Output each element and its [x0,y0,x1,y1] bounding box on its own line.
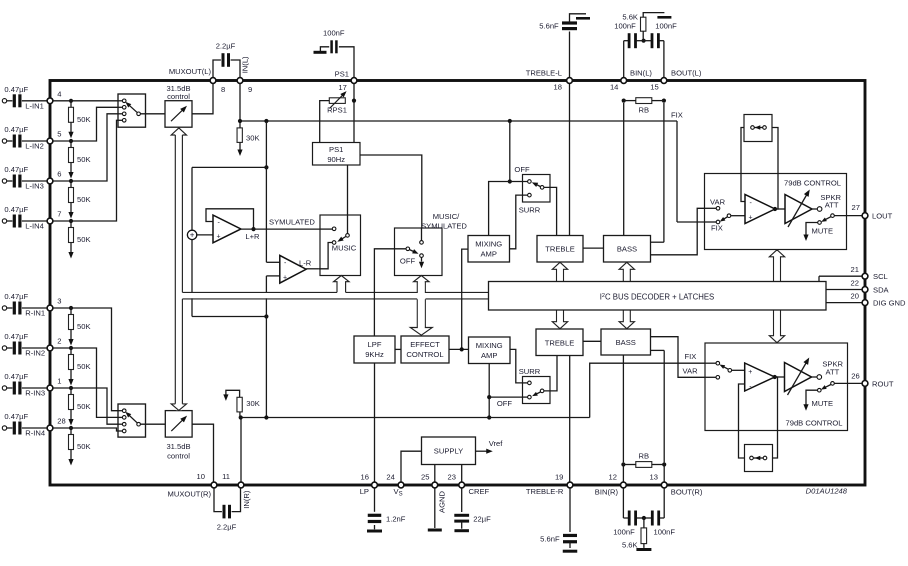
svg-text:CREF: CREF [469,487,490,496]
svg-text:5.6nF: 5.6nF [539,22,559,31]
svg-text:BIN(L): BIN(L) [630,69,652,78]
svg-text:IN(L): IN(L) [240,56,249,73]
svg-text:15: 15 [650,83,658,92]
svg-text:L-IN4: L-IN4 [25,222,44,231]
svg-text:RPS1: RPS1 [327,106,347,115]
svg-text:BASS: BASS [617,245,637,254]
svg-text:5.6K: 5.6K [622,13,638,22]
svg-text:FIX: FIX [671,111,683,120]
svg-text:2.2µF: 2.2µF [217,523,237,532]
svg-text:TREBLE-L: TREBLE-L [526,69,562,78]
svg-text:SUPPLY: SUPPLY [434,446,463,455]
svg-text:24: 24 [386,473,394,482]
svg-text:2: 2 [57,337,61,346]
svg-text:TREBLE: TREBLE [545,245,575,254]
svg-text:12: 12 [609,473,617,482]
svg-text:SYMULATED: SYMULATED [421,222,467,231]
svg-text:R-IN3: R-IN3 [25,389,45,398]
svg-text:0.47µF: 0.47µF [4,292,28,301]
svg-text:+: + [749,214,753,221]
svg-text:MUSIC/: MUSIC/ [433,212,460,221]
svg-text:L-IN3: L-IN3 [25,182,44,191]
svg-text:PS1: PS1 [329,145,343,154]
svg-text:+: + [283,274,287,281]
svg-text:Vref: Vref [489,439,504,448]
svg-text:MUTE: MUTE [812,227,834,236]
svg-text:SYMULATED: SYMULATED [269,218,315,227]
svg-text:PS1: PS1 [335,69,349,78]
svg-text:50K: 50K [77,442,91,451]
svg-text:TREBLE-R: TREBLE-R [526,487,564,496]
svg-text:11: 11 [222,472,230,481]
svg-text:MIXING: MIXING [475,240,502,249]
svg-text:L-R: L-R [299,258,312,267]
svg-text:SURR: SURR [519,206,541,215]
svg-text:90Hz: 90Hz [327,155,345,164]
svg-text:OFF: OFF [514,165,530,174]
svg-text:L-IN1: L-IN1 [25,101,44,110]
svg-text:5.6nF: 5.6nF [540,535,560,544]
svg-text:AGND: AGND [438,491,447,513]
svg-text:19: 19 [555,473,563,482]
svg-text:2.2µF: 2.2µF [216,42,236,51]
svg-text:AMP: AMP [481,351,497,360]
svg-text:50K: 50K [77,322,91,331]
svg-text:ATT: ATT [826,367,840,376]
svg-text:26: 26 [851,371,859,380]
svg-text:8: 8 [221,85,225,94]
svg-text:R-IN4: R-IN4 [25,429,45,438]
svg-text:18: 18 [554,83,562,92]
svg-text:I2C BUS DECODER + LATCHES: I2C BUS DECODER + LATCHES [600,292,715,301]
svg-text:control: control [167,452,190,461]
svg-text:+: + [748,369,752,376]
svg-text:MUXOUT(R): MUXOUT(R) [168,490,212,499]
svg-text:LOUT: LOUT [872,212,893,221]
svg-text:5: 5 [57,130,61,139]
svg-text:27: 27 [852,203,860,212]
svg-text:SURR: SURR [519,367,541,376]
svg-text:79dB CONTROL: 79dB CONTROL [786,419,843,428]
svg-text:RB: RB [639,106,650,115]
svg-text:22: 22 [851,278,859,287]
svg-text:0.47µF: 0.47µF [4,165,28,174]
svg-text:LP: LP [360,487,369,496]
svg-text:0.47µF: 0.47µF [4,125,28,134]
svg-text:RB: RB [639,452,650,461]
svg-text:L+R: L+R [245,232,260,241]
svg-text:23: 23 [448,473,456,482]
svg-text:0.47µF: 0.47µF [4,412,28,421]
svg-text:50K: 50K [77,195,91,204]
svg-text:1.2nF: 1.2nF [386,515,406,524]
svg-text:+: + [217,234,221,241]
svg-text:0.47µF: 0.47µF [4,372,28,381]
svg-text:ATT: ATT [825,201,839,210]
svg-text:9KHz: 9KHz [365,350,384,359]
svg-text:100nF: 100nF [613,527,635,536]
svg-text:MUSIC: MUSIC [332,244,357,253]
svg-text:MUTE: MUTE [812,399,834,408]
svg-text:4: 4 [57,90,61,99]
svg-text:SCL: SCL [873,272,888,281]
svg-text:MUXOUT(L): MUXOUT(L) [169,67,212,76]
svg-text:CONTROL: CONTROL [406,350,443,359]
svg-text:SDA: SDA [873,286,890,295]
svg-text:IN(R): IN(R) [242,490,251,509]
svg-text:LPF: LPF [368,340,382,349]
svg-text:FIX: FIX [711,223,723,232]
svg-text:3: 3 [57,297,61,306]
svg-text:+: + [190,231,195,240]
svg-text:17: 17 [338,83,346,92]
svg-text:TREBLE: TREBLE [545,339,575,348]
svg-text:MIXING: MIXING [476,341,503,350]
svg-text:28: 28 [57,417,65,426]
svg-text:5.6K: 5.6K [622,541,638,550]
svg-text:100nF: 100nF [323,29,345,38]
svg-text:79dB CONTROL: 79dB CONTROL [784,179,841,188]
svg-text:0.47µF: 0.47µF [4,332,28,341]
svg-text:1: 1 [57,377,61,386]
svg-text:R-IN1: R-IN1 [25,309,45,318]
svg-text:VAR: VAR [683,366,699,375]
svg-text:30K: 30K [246,399,260,408]
svg-text:VAR: VAR [710,198,726,207]
svg-text:FIX: FIX [685,352,697,361]
svg-text:13: 13 [650,473,658,482]
svg-text:100nF: 100nF [655,22,677,31]
svg-text:DIG GND: DIG GND [873,299,906,308]
svg-text:EFFECT: EFFECT [410,340,440,349]
svg-text:OFF: OFF [497,399,513,408]
svg-text:BASS: BASS [616,338,636,347]
svg-text:100nF: 100nF [654,527,676,536]
svg-text:50K: 50K [77,402,91,411]
svg-text:21: 21 [851,265,859,274]
svg-text:50K: 50K [77,155,91,164]
svg-text:31.5dB: 31.5dB [166,442,190,451]
svg-text:0.47µF: 0.47µF [4,85,28,94]
svg-text:10: 10 [197,472,205,481]
svg-text:9: 9 [248,85,252,94]
svg-text:BOUT(L): BOUT(L) [671,69,702,78]
svg-text:22µF: 22µF [473,515,491,524]
svg-text:6: 6 [57,170,61,179]
svg-text:AMP: AMP [480,250,496,259]
svg-text:0.47µF: 0.47µF [4,205,28,214]
svg-text:30K: 30K [246,133,260,142]
svg-text:20: 20 [851,292,859,301]
svg-text:R-IN2: R-IN2 [25,349,45,358]
svg-text:BIN(R): BIN(R) [595,487,619,496]
svg-text:50K: 50K [77,362,91,371]
svg-text:50K: 50K [77,115,91,124]
svg-text:D01AU1248: D01AU1248 [806,487,848,496]
svg-text:BOUT(R): BOUT(R) [671,487,703,496]
svg-text:16: 16 [361,473,369,482]
svg-text:L-IN2: L-IN2 [25,142,44,151]
svg-text:50K: 50K [77,235,91,244]
svg-text:control: control [167,92,190,101]
svg-text:14: 14 [610,83,618,92]
svg-text:7: 7 [57,210,61,219]
svg-text:25: 25 [421,473,429,482]
svg-text:100nF: 100nF [614,22,636,31]
svg-text:OFF: OFF [400,256,416,265]
svg-text:ROUT: ROUT [872,380,894,389]
